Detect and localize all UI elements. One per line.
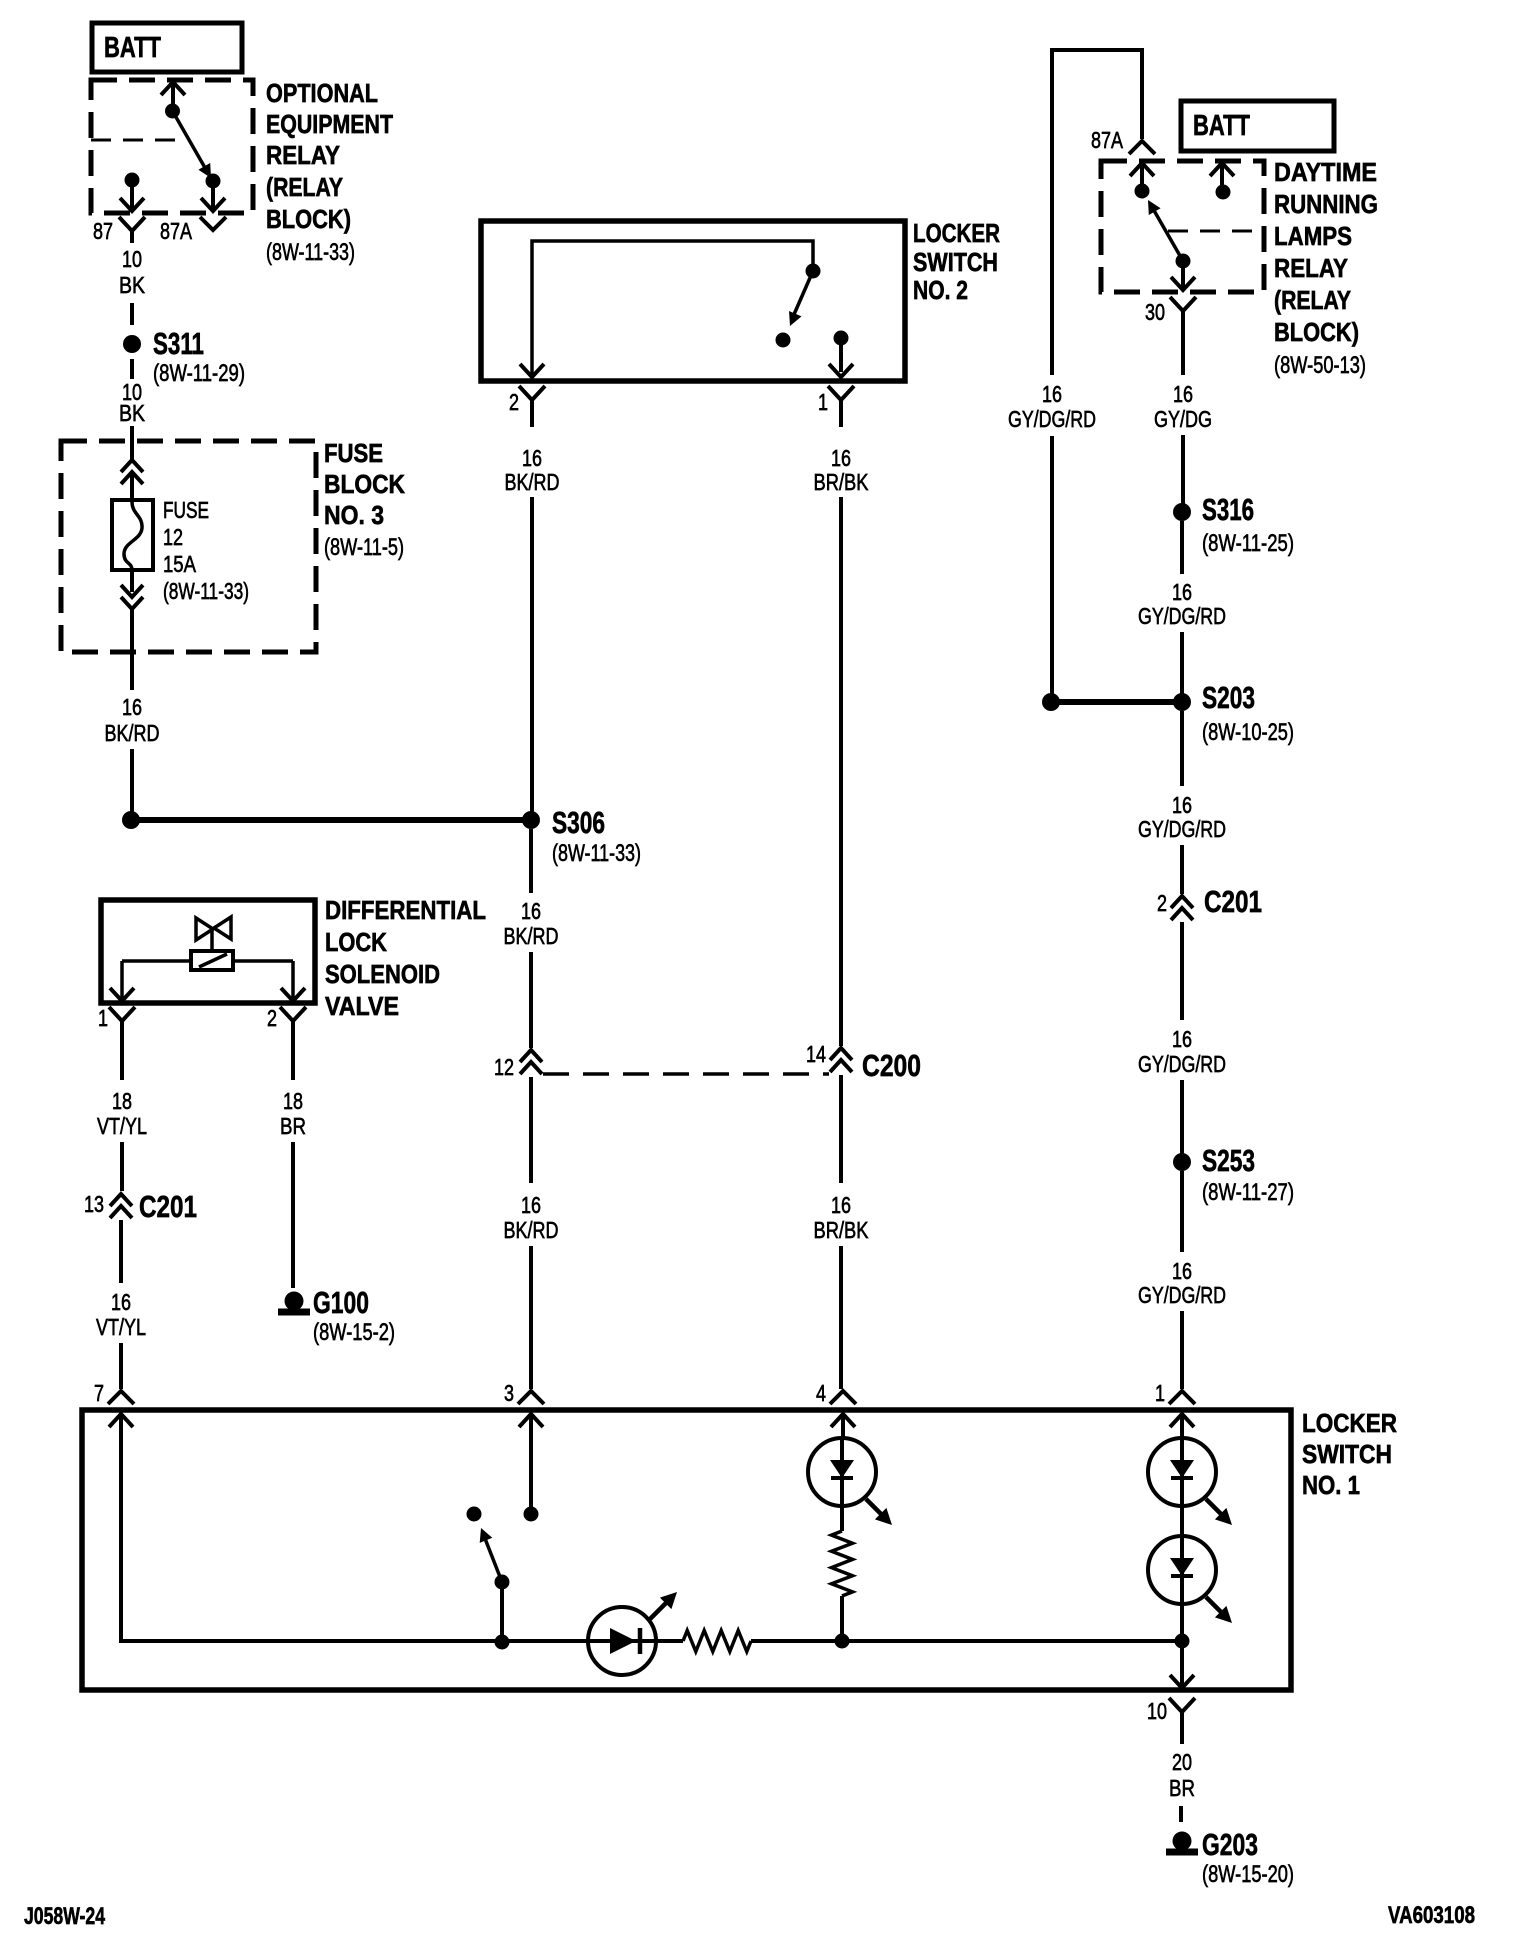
wire bus to pin 10 + arrow (1180, 1641, 1184, 1686)
svg-text:EQUIPMENT: EQUIPMENT (266, 109, 393, 139)
wire to C201 (1180, 845, 1184, 894)
svg-text:RELAY: RELAY (1274, 253, 1348, 283)
svg-text:NO. 1: NO. 1 (1302, 1470, 1360, 1500)
DRL relay arm (arrow up-left) (1152, 207, 1183, 261)
svg-text:16: 16 (522, 445, 542, 471)
ground G100 (285, 1292, 304, 1311)
svg-text:15A: 15A (163, 551, 197, 577)
svg-text:BLOCK): BLOCK) (266, 204, 351, 234)
svg-text:VT/YL: VT/YL (97, 1113, 147, 1139)
svg-text:G203: G203 (1202, 1827, 1258, 1862)
wire to C201 pin13 (120, 1142, 124, 1191)
pin 87A open connector chevron (200, 217, 226, 230)
locker switch no.1 box (82, 1410, 1291, 1690)
wire C200 pin14 down (839, 1075, 843, 1183)
svg-text:16: 16 (1173, 381, 1193, 407)
svg-text:7: 7 (94, 1380, 104, 1406)
svg-text:S203: S203 (1202, 680, 1255, 715)
svg-text:RELAY: RELAY (266, 140, 340, 170)
svg-text:SWITCH: SWITCH (913, 247, 998, 277)
LED indicator A (pin 1) (1148, 1438, 1216, 1506)
LS1 switch pivot dot (495, 1575, 510, 1590)
wire to LS1 pin 7 (119, 1343, 123, 1389)
wire fuse to exit chevron (130, 570, 134, 592)
svg-text:VALVE: VALVE (325, 991, 399, 1021)
wire dashes above S311 (130, 303, 134, 325)
wire to LS1 pin 1 (1180, 1311, 1184, 1389)
svg-text:1: 1 (98, 1005, 108, 1031)
svg-text:87A: 87A (1091, 127, 1124, 153)
wire resistor to bus (840, 1596, 844, 1641)
relay 87 stem + arrow down (130, 180, 134, 208)
svg-text:(RELAY: (RELAY (1274, 285, 1351, 315)
svg-text:10: 10 (1147, 1698, 1167, 1724)
svg-text:OPTIONAL: OPTIONAL (266, 78, 378, 108)
svg-text:BK/RD: BK/RD (505, 469, 560, 495)
wire LED to resistor (pin4) (840, 1506, 844, 1531)
fuse F12 body (112, 500, 153, 570)
valve stem (210, 929, 214, 951)
resistor (pin 4 column) (832, 1531, 853, 1596)
svg-text:LAMPS: LAMPS (1274, 221, 1352, 251)
svg-text:BK: BK (119, 400, 146, 426)
wire S306 to C200 (529, 952, 533, 1048)
wire into fuse block (130, 426, 134, 461)
fuse block entry double chevron (121, 460, 143, 472)
svg-text:GY/DG: GY/DG (1154, 406, 1212, 432)
LS1 pin4 wire to LED (841, 1414, 845, 1438)
svg-text:C201: C201 (139, 1189, 197, 1224)
svg-text:(8W-10-25): (8W-10-25) (1202, 719, 1294, 746)
svg-text:20: 20 (1172, 1749, 1192, 1775)
LS1 pin3 contact dot (524, 1507, 539, 1522)
LS2 pin1 contact dot (834, 331, 849, 346)
svg-text:10: 10 (122, 246, 142, 272)
splice S316 (1173, 503, 1191, 521)
resistor (in-line) (683, 1631, 751, 1652)
87A open chevron (1129, 141, 1155, 154)
relay pin to BATT (arrow up) (171, 83, 175, 111)
svg-text:J058W-24: J058W-24 (24, 1903, 105, 1930)
svg-text:BR/BK: BR/BK (814, 469, 870, 495)
splice S311 (123, 335, 141, 353)
svg-text:12: 12 (494, 1054, 514, 1080)
fuse element S-curve (124, 502, 142, 570)
svg-text:14: 14 (806, 1041, 826, 1067)
LS2 pin1 stem (839, 338, 843, 372)
svg-text:VA603108: VA603108 (1388, 1902, 1475, 1929)
splice S253 (1173, 1153, 1191, 1171)
left wire down to S203 (1050, 436, 1054, 702)
relay 87A contact dot (206, 174, 221, 189)
BATT feed box (top left) (92, 23, 242, 72)
wire S306 down (529, 829, 533, 893)
svg-text:30: 30 (1145, 299, 1165, 325)
splice S203 (1173, 693, 1191, 711)
svg-text:DIFFERENTIAL: DIFFERENTIAL (325, 895, 486, 925)
wire S316 down (1180, 521, 1184, 574)
wire LED to resistor (656, 1639, 683, 1643)
BATT feed box (top right) (1181, 101, 1334, 151)
svg-text:GY/DG/RD: GY/DG/RD (1138, 1051, 1226, 1077)
fuse block exit double chevron (121, 585, 143, 597)
wire pin30 down (1181, 323, 1185, 375)
daytime running lamps relay dashed box (1101, 161, 1264, 292)
svg-text:2: 2 (1157, 890, 1167, 916)
relay 87 contact dot (125, 173, 140, 188)
svg-text:3: 3 (504, 1380, 514, 1406)
wire C201 down (1180, 922, 1184, 1020)
svg-text:16: 16 (831, 445, 851, 471)
svg-text:(8W-11-27): (8W-11-27) (1202, 1179, 1294, 1206)
wire S253 down (1180, 1171, 1184, 1252)
svg-text:S311: S311 (153, 326, 204, 361)
wire to pin 3 (529, 1246, 533, 1389)
svg-text:BLOCK: BLOCK (324, 469, 405, 499)
svg-text:GY/DG/RD: GY/DG/RD (1138, 816, 1226, 842)
locker switch no.2 box (481, 221, 905, 381)
svg-text:13: 13 (84, 1191, 104, 1217)
S203 branch dot (1042, 693, 1060, 711)
solenoid pin1 arrow at edge (110, 988, 134, 1001)
svg-text:(8W-11-33): (8W-11-33) (163, 578, 249, 604)
bus junction dot (pin1) (1175, 1634, 1190, 1649)
svg-text:4: 4 (816, 1380, 826, 1406)
svg-text:BATT: BATT (104, 32, 161, 64)
svg-text:LOCKER: LOCKER (1302, 1408, 1397, 1438)
svg-text:16: 16 (1172, 579, 1192, 605)
svg-text:(8W-15-20): (8W-15-20) (1202, 1861, 1294, 1888)
svg-text:12: 12 (163, 524, 183, 550)
svg-text:BK: BK (119, 272, 146, 298)
svg-text:GY/DG/RD: GY/DG/RD (1138, 1282, 1226, 1308)
svg-text:LOCKER: LOCKER (913, 218, 1000, 248)
LS1 pin7 internal wire (121, 1414, 588, 1641)
svg-text:16: 16 (1042, 381, 1062, 407)
svg-text:BR: BR (280, 1113, 306, 1139)
wire pin1 down to C200 (839, 497, 843, 1046)
svg-text:C201: C201 (1204, 884, 1262, 919)
LS1 switch stem (500, 1582, 504, 1641)
LED indicator B (pin 1) (1148, 1536, 1216, 1604)
svg-text:1: 1 (818, 389, 828, 415)
DRL 30 contact dot (1176, 254, 1191, 269)
svg-text:BR/BK: BR/BK (814, 1217, 870, 1243)
wire pin2 down to S306 (530, 497, 534, 812)
svg-text:G100: G100 (313, 1285, 369, 1320)
wire to S203 (1180, 632, 1184, 694)
svg-text:NO. 3: NO. 3 (324, 500, 384, 530)
wire chevron to fuse (130, 474, 134, 502)
svg-text:BK/RD: BK/RD (504, 923, 559, 949)
LED indicator (in-line) (588, 1607, 656, 1675)
svg-text:87A: 87A (160, 218, 193, 244)
LS2 inner wire pin2 up and across (532, 241, 813, 376)
wire between LEDs (1180, 1506, 1184, 1536)
wire C200 pin12 down (529, 1077, 533, 1183)
LS1 switch open contact dot (467, 1507, 482, 1522)
svg-text:(8W-50-13): (8W-50-13) (1274, 352, 1366, 379)
LS1 switch arm (484, 1536, 502, 1582)
svg-text:(8W-11-25): (8W-11-25) (1202, 530, 1294, 557)
svg-text:1: 1 (1155, 1380, 1165, 1406)
wire junction to S306 (131, 817, 531, 823)
C200 dashed connector line (543, 1072, 829, 1076)
fuse block no.3 dashed box (61, 441, 316, 652)
relay coil divider dashed line (91, 139, 184, 142)
LS1 pin1 wire to LED (1180, 1414, 1184, 1438)
DRL pin from BATT arrow into box (1210, 163, 1234, 176)
wire to pin 4 (839, 1246, 843, 1389)
svg-text:BATT: BATT (1193, 110, 1250, 142)
wire pin10 down (1180, 1724, 1184, 1744)
svg-text:16: 16 (521, 1192, 541, 1218)
splice S306 (522, 811, 540, 829)
svg-text:S306: S306 (552, 805, 605, 840)
wire pin2 down to G100 (291, 1033, 295, 1080)
svg-text:DAYTIME: DAYTIME (1274, 157, 1377, 187)
bus wire pin4 to pin1 (842, 1639, 1182, 1643)
solenoid diagonal (199, 954, 227, 967)
relay common contact dot (165, 104, 180, 119)
svg-text:BK/RD: BK/RD (105, 720, 160, 746)
svg-text:C200: C200 (862, 1048, 921, 1083)
solenoid internal wires (122, 959, 191, 963)
wire down to S316 (1181, 435, 1185, 504)
wire dash to G203 (1179, 1806, 1183, 1822)
wire resistor to pin4 column (751, 1639, 842, 1643)
svg-text:SWITCH: SWITCH (1302, 1439, 1392, 1469)
junction dot to S306 (122, 811, 140, 829)
LS2 switch common dot (806, 264, 821, 279)
wire to box bottom (130, 609, 134, 690)
svg-text:16: 16 (831, 1192, 851, 1218)
svg-text:RUNNING: RUNNING (1274, 189, 1378, 219)
svg-text:18: 18 (112, 1088, 132, 1114)
svg-text:S316: S316 (1202, 492, 1254, 527)
LS2 open contact dot (776, 333, 791, 348)
svg-text:BK/RD: BK/RD (504, 1217, 559, 1243)
svg-text:FUSE: FUSE (324, 438, 383, 468)
svg-text:VT/YL: VT/YL (96, 1314, 146, 1340)
wire S203 down (1180, 711, 1184, 786)
wire to S253 (1180, 1080, 1184, 1154)
wire stub below pin 1 (839, 412, 843, 427)
bus junction dot (pin4) (835, 1634, 850, 1649)
svg-text:S253: S253 (1202, 1143, 1255, 1178)
svg-text:16: 16 (122, 694, 142, 720)
svg-text:BLOCK): BLOCK) (1274, 317, 1359, 347)
svg-text:(8W-11-33): (8W-11-33) (266, 239, 355, 266)
svg-text:(8W-15-2): (8W-15-2) (313, 1319, 395, 1346)
svg-text:16: 16 (111, 1289, 131, 1315)
valve bowtie symbol (196, 917, 231, 940)
svg-text:GY/DG/RD: GY/DG/RD (1138, 603, 1226, 629)
wire pin1 down (120, 1033, 124, 1080)
svg-text:16: 16 (1172, 1258, 1192, 1284)
svg-text:(8W-11-29): (8W-11-29) (153, 360, 245, 387)
DRL 30 stem + arrow down (1181, 261, 1185, 287)
LS1 pin3 internal wire (529, 1414, 533, 1507)
svg-text:LOCK: LOCK (325, 927, 387, 957)
LED indicator (pin 4) (808, 1438, 876, 1506)
pin 87 connector Y (119, 217, 145, 231)
wire LED B to bus (1180, 1604, 1184, 1641)
ground G203 (1173, 1832, 1192, 1851)
DRL relay divider dashed line (1168, 230, 1264, 233)
svg-text:2: 2 (267, 1005, 277, 1031)
svg-text:BR: BR (1169, 1775, 1195, 1801)
differential lock solenoid valve box (101, 900, 315, 1003)
solenoid coil rect (191, 951, 233, 970)
wire dashes below S311 (130, 359, 134, 379)
svg-text:87: 87 (93, 218, 113, 244)
svg-text:FUSE: FUSE (163, 497, 209, 523)
LS1 bus junction dot (switch) (495, 1635, 510, 1650)
LS2 pin1 arrow at edge (829, 364, 853, 377)
DRL pin 87A arrow into box (1130, 163, 1154, 176)
svg-text:NO. 2: NO. 2 (913, 275, 968, 305)
svg-text:(8W-11-33): (8W-11-33) (552, 840, 641, 867)
svg-text:GY/DG/RD: GY/DG/RD (1008, 406, 1096, 432)
relay 87A contact stem + arrow down (211, 181, 215, 208)
svg-text:16: 16 (521, 898, 541, 924)
svg-text:SOLENOID: SOLENOID (325, 959, 440, 989)
optional equipment relay (relay block) dashed box (91, 80, 253, 213)
DRL BATT contact dot (1216, 185, 1231, 200)
svg-text:18: 18 (283, 1088, 303, 1114)
DRL 87A contact dot (1135, 184, 1150, 199)
svg-text:16: 16 (1172, 1026, 1192, 1052)
svg-text:(8W-11-5): (8W-11-5) (324, 534, 404, 561)
wire C201 pin13 down (119, 1220, 123, 1283)
wire top loop from 87A (1052, 50, 1142, 375)
S203 branch wire (1051, 699, 1182, 705)
wire stub below pin 2 (530, 412, 534, 427)
svg-text:16: 16 (1172, 792, 1192, 818)
svg-text:(RELAY: (RELAY (266, 172, 343, 202)
wire to junction (130, 749, 134, 812)
svg-text:2: 2 (509, 389, 519, 415)
solenoid pin2 arrow at edge (281, 988, 305, 1001)
relay movable arm to 87A (173, 111, 209, 173)
LS2 switch arm (792, 271, 813, 319)
LS2 pin2 arrow at edge (520, 364, 544, 377)
